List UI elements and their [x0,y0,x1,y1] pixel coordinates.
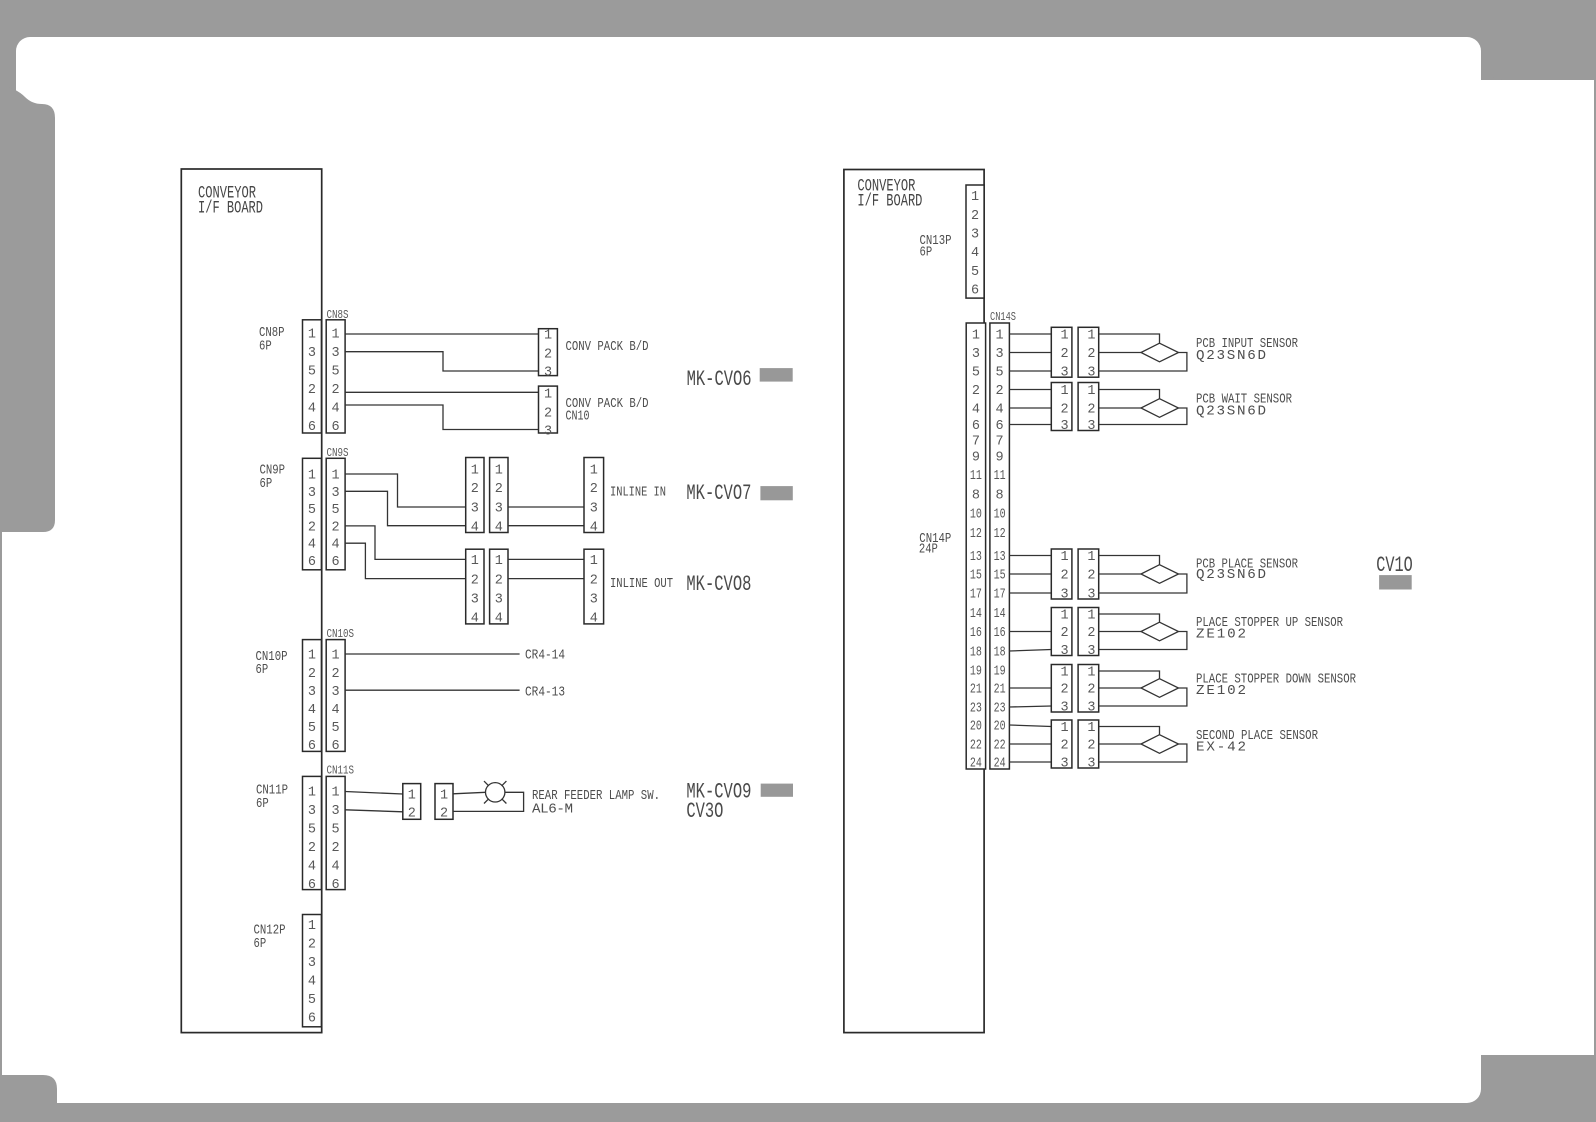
svg-text:2: 2 [1087,683,1095,698]
grey highlight box MK-CV09 [761,784,793,797]
svg-text:1: 1 [971,190,979,205]
svg-text:12: 12 [970,527,982,542]
svg-text:2: 2 [972,384,980,399]
svg-text:2: 2 [332,521,340,536]
svg-text:1: 1 [544,388,552,403]
svg-text:2: 2 [332,667,340,682]
wire CN14S pin to sensor 1 connector pin2 [1009,352,1051,354]
wire CN14S pin to sensor 2 connector pin3 [1009,424,1051,426]
svg-text:5: 5 [972,366,980,381]
svg-text:2: 2 [471,482,479,497]
svg-text:2: 2 [1087,626,1095,641]
svg-text:CN11S: CN11S [327,764,355,778]
label CN13P 6P [920,233,952,261]
svg-text:1: 1 [1061,384,1069,399]
svg-text:I/F BOARD: I/F BOARD [857,191,922,211]
connector CN8P (plug, 6P) [303,320,322,435]
svg-text:21: 21 [994,683,1006,698]
svg-text:6P: 6P [254,936,267,952]
svg-text:3: 3 [1061,588,1069,603]
connector inline-out D (4P) [466,549,484,626]
svg-text:6: 6 [971,284,979,299]
wire CN9S pin2 to inline-out connector pin1 [345,526,466,560]
connector sensor 1 a (3P) [1051,327,1072,380]
svg-text:6: 6 [308,555,316,570]
wire sensor 3 pin1 over diamond [1099,556,1160,565]
svg-text:1: 1 [544,329,552,344]
connector CN10P (plug, 6P) [303,640,322,755]
svg-text:4: 4 [495,520,503,535]
svg-text:5: 5 [308,823,316,838]
wire inline-out E pin1 to F pin1 [508,558,584,560]
svg-text:1: 1 [308,469,316,484]
svg-text:1: 1 [590,463,598,478]
svg-text:6: 6 [308,1012,316,1027]
svg-text:CR4-13: CR4-13 [525,684,565,700]
svg-text:3: 3 [308,956,316,971]
svg-text:2: 2 [1087,347,1095,362]
white left edge sliver [2,532,22,1075]
label CN11P 6P [256,783,288,813]
svg-text:3: 3 [308,486,316,501]
svg-text:16: 16 [970,626,982,641]
svg-text:4: 4 [308,975,316,990]
sensor diamond 3 PCB PLACE SENSOR [1141,565,1179,584]
svg-text:6: 6 [996,419,1004,434]
svg-text:4: 4 [332,860,340,875]
svg-text:4: 4 [971,246,979,261]
connector CN9S (socket) [326,458,345,570]
wire CN8S pin4 to CONV PACK B/D CN10 pin3 [345,405,538,430]
svg-text:4: 4 [471,612,479,627]
svg-text:EX-42: EX-42 [1196,740,1246,756]
svg-text:3: 3 [972,347,980,362]
svg-text:4: 4 [332,402,340,417]
svg-text:6: 6 [308,420,316,435]
svg-text:3: 3 [308,685,316,700]
svg-text:20: 20 [994,720,1006,735]
svg-text:6P: 6P [256,662,269,678]
svg-text:2: 2 [996,384,1004,399]
svg-text:5: 5 [332,503,340,518]
sensor diamond 1 PCB INPUT SENSOR [1141,343,1179,362]
svg-text:10: 10 [994,508,1006,523]
svg-text:CR4-14: CR4-14 [525,648,565,664]
wire CN14S pin to sensor 6 connector pin1 [1009,725,1051,727]
wire sensor 1 pin1 over diamond [1099,334,1160,343]
wire sensor 3 diamond right loop to pin3 [1099,574,1187,593]
svg-text:Q23SN6D: Q23SN6D [1196,404,1266,420]
svg-text:6: 6 [332,555,340,570]
svg-text:1: 1 [495,554,503,569]
wire CN14S pin to sensor 2 connector pin1 [1009,389,1051,391]
connector sensor 2 b (3P) [1078,383,1099,435]
grey highlight box MK-CV07 [760,486,792,500]
svg-text:3: 3 [1061,757,1069,772]
svg-text:1: 1 [1087,384,1095,399]
svg-text:6: 6 [308,739,316,754]
svg-text:14: 14 [970,607,982,622]
svg-text:24: 24 [970,757,982,772]
svg-text:3: 3 [1061,366,1069,381]
svg-text:5: 5 [996,366,1004,381]
wire CN14S pin to sensor 5 connector pin2 [1009,687,1051,689]
svg-text:1: 1 [332,649,340,664]
connector sensor 2 a (3P) [1051,383,1072,435]
svg-text:2: 2 [971,209,979,224]
svg-text:1: 1 [408,789,416,804]
svg-text:1: 1 [972,329,980,344]
svg-text:3: 3 [996,347,1004,362]
label SECOND PLACE SENSOR EX-42 [1196,728,1318,756]
wire sensor 3 pin2 to diamond left [1099,573,1141,575]
svg-text:24: 24 [994,757,1006,772]
svg-text:2: 2 [1087,739,1095,754]
svg-text:2: 2 [440,807,448,822]
svg-text:2: 2 [590,482,598,497]
wire CN11S pin1 to lamp connector pin1 [345,792,403,795]
svg-text:2: 2 [471,573,479,588]
board outline left CONVEYOR I/F BOARD [181,169,321,1033]
wire CN14S pin to sensor 3 connector pin1 [1009,555,1051,557]
svg-text:2: 2 [308,667,316,682]
label CN14P 24P [919,531,951,558]
svg-text:6P: 6P [260,476,273,492]
svg-text:3: 3 [544,366,552,381]
svg-text:11: 11 [970,469,982,484]
svg-text:2: 2 [408,807,416,822]
svg-text:3: 3 [1061,419,1069,434]
connector inline-in B (4P) [490,458,508,536]
connector sensor 3 a (3P) [1051,549,1072,603]
wire sensor 4 diamond right loop to pin3 [1099,632,1187,650]
connector lamp 2P a [403,784,421,822]
svg-text:4: 4 [590,612,598,627]
svg-text:4: 4 [308,538,316,553]
connector CN14P (plug, 24P) [966,323,985,772]
svg-text:24P: 24P [919,542,938,558]
grey highlight box CV10 [1379,575,1412,589]
svg-text:4: 4 [996,403,1004,418]
svg-text:3: 3 [308,804,316,819]
wire CN10S pin1 to relay CR4-14 [345,653,519,655]
svg-text:3: 3 [544,425,552,440]
wire CN14S pin to sensor 3 connector pin2 [1009,573,1051,575]
svg-text:13: 13 [970,550,982,565]
svg-text:1: 1 [308,919,316,934]
connector CN13P (plug, 6P) [966,185,984,299]
connector sensor 6 a (3P) [1051,720,1072,772]
connector CN12P (plug, 6P) [303,915,322,1027]
wire sensor 5 pin1 over diamond [1099,671,1160,679]
wire sensor 5 pin2 to diamond left [1099,687,1141,689]
svg-text:3: 3 [332,804,340,819]
svg-text:Q23SN6D: Q23SN6D [1196,567,1266,583]
svg-text:6: 6 [332,739,340,754]
label PCB PLACE SENSOR Q23SN6D [1196,557,1298,584]
connector CN11S (socket) [326,776,345,893]
svg-text:5: 5 [308,993,316,1008]
label CN9P 6P [260,462,286,492]
svg-text:1: 1 [471,463,479,478]
svg-text:5: 5 [332,721,340,736]
connector sensor 4 a (3P) [1051,608,1072,660]
connector sensor 6 b (3P) [1078,720,1099,772]
svg-text:4: 4 [495,612,503,627]
svg-text:5: 5 [308,365,316,380]
svg-text:4: 4 [471,520,479,535]
svg-text:4: 4 [972,403,980,418]
svg-text:19: 19 [994,665,1006,680]
svg-text:3: 3 [1087,366,1095,381]
svg-text:AL6-M: AL6-M [532,802,573,818]
label REAR FEEDER LAMP SW. AL6-M [532,788,660,818]
wire CN8S pin3 to CONV PACK B/D pin3 [345,352,538,371]
svg-text:1: 1 [996,329,1004,344]
svg-text:5: 5 [971,265,979,280]
wire sensor 2 pin2 to diamond left [1099,407,1141,409]
svg-text:5: 5 [308,503,316,518]
svg-text:9: 9 [972,451,980,466]
wire CN8S pin2 to CONV PACK B/D CN10 pin1 [345,391,538,393]
wire sensor 1 diamond right loop to pin3 [1099,353,1187,372]
svg-text:6P: 6P [259,339,272,355]
svg-text:4: 4 [308,860,316,875]
connector sensor 1 b (3P) [1078,327,1099,380]
wire inline-in B pin4 to C pin4 [508,525,584,527]
svg-text:3: 3 [308,346,316,361]
svg-text:2: 2 [308,521,316,536]
svg-text:6: 6 [972,419,980,434]
svg-text:15: 15 [994,569,1006,584]
label PCB WAIT SENSOR Q23SN6D [1196,392,1292,420]
svg-text:3: 3 [471,502,479,517]
svg-text:Q23SN6D: Q23SN6D [1196,348,1266,364]
wire sensor 5 diamond right loop to pin3 [1099,688,1187,706]
svg-text:CV1O: CV1O [1376,552,1412,578]
board outline right CONVEYOR I/F BOARD [844,170,984,1033]
label PLACE STOPPER UP SENSOR ZE102 [1196,615,1343,643]
svg-text:20: 20 [970,720,982,735]
wire CN10S pin3 to relay CR4-13 [345,689,519,691]
svg-text:3: 3 [495,593,503,608]
svg-text:2: 2 [544,347,552,362]
connector CN8S (socket) [326,320,345,435]
wire sensor 2 diamond right loop to pin3 [1099,408,1187,425]
connector inline-out F (4P) [584,549,604,626]
svg-text:1: 1 [1061,721,1069,736]
svg-text:2: 2 [308,938,316,953]
svg-text:22: 22 [994,739,1006,754]
wire CN14S pin to sensor 2 connector pin2 [1009,407,1051,409]
svg-text:1: 1 [1061,550,1069,565]
svg-text:1: 1 [332,469,340,484]
sensor diamond 2 PCB WAIT SENSOR [1141,399,1179,418]
connector inline-out E (4P) [490,549,508,626]
svg-text:3: 3 [1087,701,1095,716]
wire CN14S pin to sensor 6 connector pin3 [1009,761,1051,763]
svg-text:16: 16 [994,626,1006,641]
grey corner filler top of right tab [1481,56,1504,80]
svg-text:22: 22 [970,739,982,754]
svg-text:6: 6 [332,420,340,435]
svg-text:2: 2 [1061,626,1069,641]
svg-text:4: 4 [308,402,316,417]
svg-text:8: 8 [972,489,980,504]
sensor diamond 6 SECOND PLACE SENSOR [1141,735,1179,754]
connector inline-in A (4P) [466,458,484,536]
wire CN9S pin3 to inline-in connector pin4 [345,491,466,525]
label CONV PACK B/D CN10 [566,396,649,425]
svg-text:1: 1 [1061,609,1069,624]
white right tab [1470,80,1594,1055]
svg-text:6P: 6P [920,244,933,260]
svg-text:19: 19 [970,665,982,680]
svg-text:1: 1 [471,554,479,569]
svg-text:3: 3 [1087,757,1095,772]
svg-text:3: 3 [471,593,479,608]
wire sensor 4 pin2 to diamond left [1099,631,1141,633]
connector CONV PACK B/D CN10 (3P) [539,386,558,440]
svg-text:4: 4 [590,520,598,535]
wire CN14S pin to sensor 4 connector pin3 [1009,650,1051,652]
wire CN14S pin to sensor 1 connector pin3 [1009,370,1051,372]
svg-text:1: 1 [1087,721,1095,736]
svg-text:2: 2 [1061,347,1069,362]
wire lamp connector pin1 to lamp [453,792,486,794]
svg-text:7: 7 [996,435,1004,450]
svg-text:CN10: CN10 [566,409,590,425]
connector sensor 3 b (3P) [1078,549,1099,603]
wire CN14S pin to sensor 1 connector pin1 [1009,333,1051,335]
svg-text:4: 4 [332,538,340,553]
label CN10P 6P [256,649,288,678]
board title CONVEYOR I/F BOARD (right) [857,177,922,212]
svg-text:1: 1 [590,554,598,569]
svg-text:2: 2 [1087,569,1095,584]
svg-text:3: 3 [1087,588,1095,603]
svg-text:2: 2 [308,841,316,856]
svg-text:3: 3 [590,593,598,608]
svg-text:2: 2 [332,841,340,856]
connector CN10S (socket) [326,640,345,755]
svg-text:3: 3 [1061,701,1069,716]
svg-text:3: 3 [971,228,979,243]
svg-text:3: 3 [1087,419,1095,434]
svg-text:3: 3 [332,486,340,501]
label CN8P 6P [259,325,285,355]
svg-text:2: 2 [544,406,552,421]
connector CN14S (socket) [990,323,1010,772]
wire CN9S pin4 to inline-out connector pin2 [345,543,466,578]
wire sensor 6 diamond right loop to pin3 [1099,744,1187,762]
wire CN14S pin to sensor 3 connector pin3 [1009,592,1051,594]
grey corner filler bottom of right tab [1481,1055,1504,1079]
svg-text:2: 2 [308,383,316,398]
wire CN11S pin3 to lamp connector pin2 [345,810,403,812]
wire CN8S pin1 to CONV PACK B/D pin1 [345,333,538,335]
svg-text:3: 3 [590,502,598,517]
svg-text:1: 1 [495,463,503,478]
wire sensor 2 pin1 over diamond [1099,390,1160,399]
svg-text:MK-CVO8: MK-CVO8 [686,571,751,597]
svg-text:5: 5 [308,721,316,736]
svg-text:1: 1 [1061,666,1069,681]
svg-text:23: 23 [970,702,982,717]
label PCB INPUT SENSOR Q23SN6D [1196,336,1298,364]
svg-text:5: 5 [332,365,340,380]
connector CONV PACK B/D (3P) [539,329,558,381]
connector lamp 2P b [435,784,453,822]
connector sensor 5 a (3P) [1051,665,1072,716]
svg-text:1: 1 [1087,609,1095,624]
svg-text:10: 10 [970,508,982,523]
svg-text:11: 11 [994,469,1006,484]
wire CN14S pin to sensor 5 connector pin3 [1009,706,1051,707]
svg-text:1: 1 [1087,550,1095,565]
svg-text:17: 17 [970,588,982,603]
grey left binder tab lower [0,1075,57,1122]
lamp symbol REAR FEEDER LAMP SW. [484,781,506,803]
wire sensor 6 pin1 over diamond [1099,727,1160,735]
svg-text:2: 2 [590,573,598,588]
svg-text:3: 3 [1087,644,1095,659]
svg-text:21: 21 [970,683,982,698]
connector CN9P (plug, 6P) [303,458,322,570]
svg-text:INLINE IN: INLINE IN [610,484,666,500]
sensor diamond 4 PLACE STOPPER UP SENSOR [1141,622,1179,641]
svg-text:1: 1 [440,789,448,804]
svg-text:1: 1 [308,649,316,664]
svg-text:1: 1 [308,786,316,801]
svg-text:ZE102: ZE102 [1196,627,1246,643]
wire CN14S pin to sensor 4 connector pin2 [1009,631,1051,633]
svg-text:6: 6 [308,878,316,893]
wire inline-out E pin2 to F pin2 [508,578,584,580]
svg-text:3: 3 [1061,644,1069,659]
svg-text:18: 18 [994,646,1006,661]
svg-text:4: 4 [332,703,340,718]
svg-text:12: 12 [994,527,1006,542]
svg-text:3: 3 [332,685,340,700]
svg-text:1: 1 [332,786,340,801]
svg-text:CV3O: CV3O [686,798,723,824]
svg-text:18: 18 [970,646,982,661]
wire inline-in B pin3 to C pin3 [508,506,584,508]
connector CN11P (plug, 6P) [303,776,322,893]
svg-text:INLINE OUT: INLINE OUT [610,576,673,592]
svg-text:MK-CVO6: MK-CVO6 [687,366,752,392]
connector sensor 5 b (3P) [1078,665,1099,716]
wire CN9S pin1 to inline-in connector pin3 [345,474,466,507]
svg-text:2: 2 [1061,739,1069,754]
svg-text:CONV PACK B/D: CONV PACK B/D [566,339,649,355]
svg-text:MK-CVO7: MK-CVO7 [686,480,751,506]
svg-text:15: 15 [970,569,982,584]
svg-text:23: 23 [994,702,1006,717]
svg-text:2: 2 [495,482,503,497]
svg-text:5: 5 [332,823,340,838]
svg-text:1: 1 [332,328,340,343]
connector inline-in C (4P) [584,458,604,536]
svg-text:6: 6 [332,878,340,893]
grey left binder tab upper [0,86,55,532]
svg-text:2: 2 [1061,569,1069,584]
svg-text:6P: 6P [256,796,269,812]
svg-text:2: 2 [495,573,503,588]
svg-text:13: 13 [994,550,1006,565]
board title CONVEYOR I/F BOARD (left) [198,184,263,219]
